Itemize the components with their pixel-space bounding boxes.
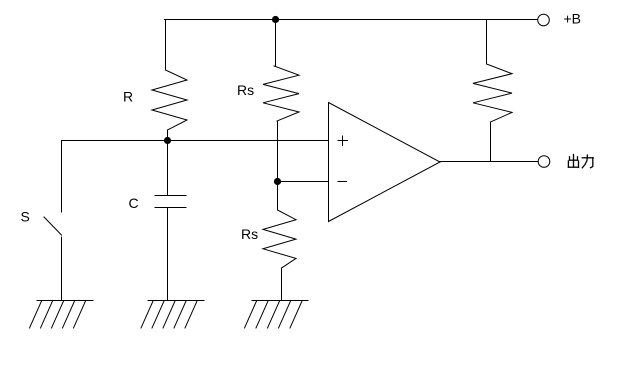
wire inverting input [278, 181, 329, 183]
svg-text:C: C [129, 195, 139, 211]
resistor R [152, 20, 187, 141]
op-amp U1 [329, 103, 441, 222]
resistor Rs1 (upper) [263, 20, 299, 182]
wire mid (non-inverting input rail) [62, 140, 329, 142]
capacitor C [155, 141, 186, 301]
resistor Rs2 (lower) [263, 182, 296, 301]
svg-text:Rs: Rs [241, 226, 258, 242]
svg-text:Rs: Rs [237, 82, 254, 98]
node junction top (R / Rs rail) [272, 16, 279, 23]
node junction mid (R / C) [164, 137, 171, 144]
terminal +B [538, 14, 550, 26]
label output (出力) drawn glyphs [568, 155, 593, 168]
terminal output [538, 156, 550, 168]
ground G3 (under Rs2) [245, 301, 309, 329]
node junction minus input (Rs1 / Rs2) [274, 178, 281, 185]
svg-text:+B: +B [564, 11, 582, 27]
wire output [440, 161, 538, 163]
svg-text:S: S [21, 209, 30, 225]
ground G2 (under C) [141, 301, 204, 329]
resistor R3 (output pull-up) [473, 20, 512, 162]
ground G1 (under S) [30, 301, 94, 329]
wire top rail [165, 19, 538, 21]
svg-text:R: R [123, 89, 133, 105]
switch S [44, 141, 62, 301]
